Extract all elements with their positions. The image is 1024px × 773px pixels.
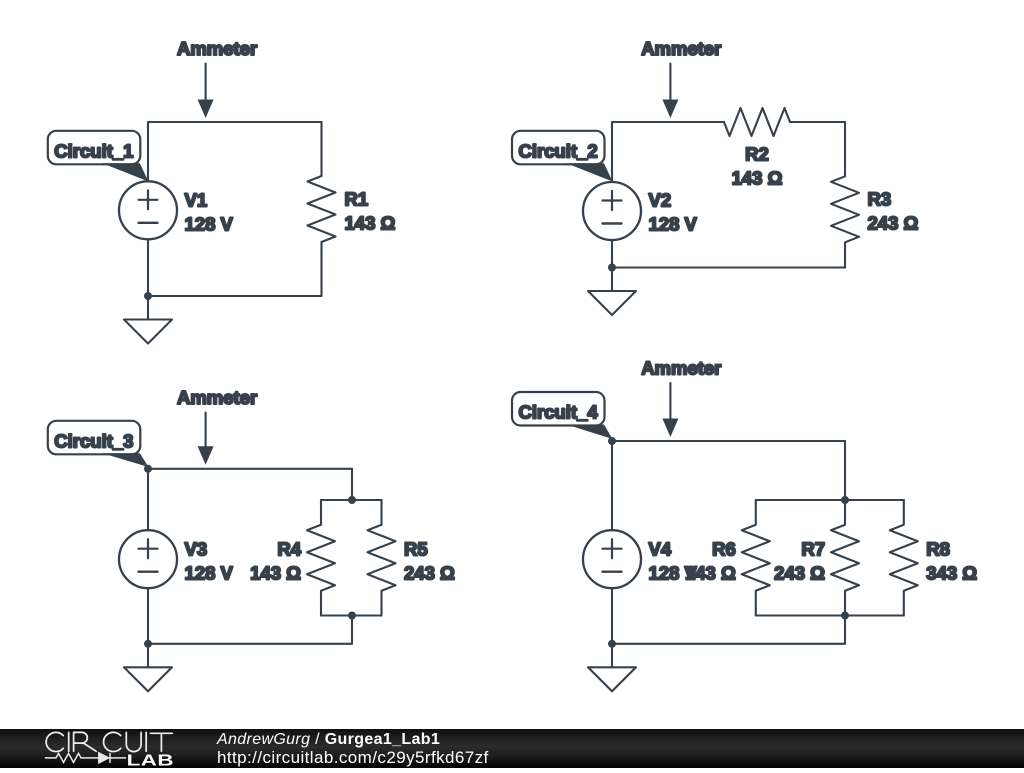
wire bottom-left from V2 to ground node (Circuit 2) (611, 240, 613, 268)
svg-text:R1: R1 (345, 189, 369, 210)
svg-text:243 Ω: 243 Ω (868, 213, 919, 234)
svg-text:R3: R3 (868, 189, 892, 210)
node junction dot parallel top (Circuit 3) (348, 496, 356, 504)
svg-text:Ammeter: Ammeter (177, 38, 257, 59)
wire top rail Circuit 3 (148, 469, 352, 530)
resistor R3 (831, 122, 859, 268)
resistor R7 (831, 500, 859, 616)
callout Circuit_4 (512, 392, 605, 426)
svg-text:Circuit_3: Circuit_3 (54, 430, 133, 451)
logo diode (99, 753, 126, 763)
wire bottom-left from V3 to ground node (Circuit 3) (147, 588, 149, 644)
wire right drop to parallel network (Circuit 4) (844, 441, 846, 500)
node junction dot bottom-left (Circuit 4) (608, 640, 616, 648)
svg-text:R7: R7 (801, 539, 825, 560)
voltage source V2 (583, 182, 641, 240)
svg-text:R4: R4 (277, 539, 301, 560)
logo letter C (46, 732, 63, 751)
svg-text:R6: R6 (712, 539, 736, 560)
svg-text:243 Ω: 243 Ω (774, 563, 825, 584)
node junction dot bottom-left (Circuit 1) (144, 292, 152, 300)
node junction dot top-left (Circuit 4) (608, 437, 616, 445)
wire right drop to parallel pair (Circuit 3) (351, 469, 353, 500)
wire bottom-left from V1 to ground node (Circuit 1) (147, 239, 149, 296)
svg-text:Circuit_2: Circuit_2 (519, 140, 598, 161)
wire top-left rail Circuit 2 (612, 122, 723, 182)
svg-text:Ammeter: Ammeter (641, 38, 721, 59)
resistor R6 (742, 500, 770, 616)
voltage source V4 (583, 530, 641, 588)
logo letter U (126, 732, 141, 751)
svg-text:R2: R2 (745, 144, 769, 165)
svg-text:128 V: 128 V (649, 563, 698, 584)
svg-text:143 Ω: 143 Ω (250, 563, 301, 584)
logo letter C (104, 732, 121, 751)
wire top rail Circuit 4 (612, 441, 845, 530)
resistor R8 (890, 500, 918, 616)
node junction dot bottom-left (Circuit 3) (144, 640, 152, 648)
wire bottom rail Circuit 1 (148, 295, 322, 297)
wire parallel top rail (Circuit 3) (321, 499, 382, 501)
svg-text:R8: R8 (926, 539, 950, 560)
svg-text:128 V: 128 V (185, 214, 234, 235)
wire parallel bottom rail (Circuit 3) (321, 614, 382, 616)
svg-text:243 Ω: 243 Ω (404, 563, 455, 584)
ground symbol (Circuit 3) (147, 644, 149, 668)
ammeter probe arrow (Circuit 1) (205, 64, 207, 102)
svg-text:R5: R5 (404, 539, 428, 560)
ammeter probe arrow (Circuit 2) (669, 64, 671, 102)
ammeter probe arrow (Circuit 3) (205, 413, 207, 449)
voltage source V1 (119, 181, 177, 239)
node junction dot parallel bottom (Circuit 3) (348, 612, 356, 620)
node junction dot bottom-left (Circuit 2) (608, 264, 616, 272)
svg-text:V1: V1 (185, 190, 208, 211)
ground symbol (Circuit 2) (611, 268, 613, 292)
svg-text:LAB: LAB (127, 752, 174, 768)
callout Circuit_3 (48, 421, 141, 455)
node junction dot parallel bottom (Circuit 4) (841, 612, 849, 620)
svg-text:143 Ω: 143 Ω (345, 213, 396, 234)
callout Circuit_1 (48, 131, 141, 165)
wire bottom drop from parallel pair (Circuit 3) (351, 616, 353, 644)
wire bottom rail Circuit 4 (612, 643, 845, 645)
voltage source V3 (119, 530, 177, 588)
wire parallel bottom rail (Circuit 4) (756, 614, 904, 616)
logo letter I (68, 732, 70, 751)
logo letter I (145, 732, 147, 751)
svg-text:Circuit_4: Circuit_4 (519, 402, 599, 423)
resistor R2 (724, 108, 790, 136)
wire bottom drop from parallel network (Circuit 4) (844, 616, 846, 644)
svg-text:143 Ω: 143 Ω (732, 168, 783, 189)
ground symbol (Circuit 4) (611, 644, 613, 668)
svg-text:Circuit_1: Circuit_1 (54, 140, 133, 161)
svg-text:128 V: 128 V (649, 214, 698, 235)
svg-text:V4: V4 (649, 539, 672, 560)
svg-text:V3: V3 (185, 539, 208, 560)
wire top rail Circuit 1 (148, 122, 322, 181)
resistor R1 (308, 122, 336, 296)
svg-text:Ammeter: Ammeter (641, 358, 721, 379)
node junction dot top-left (Circuit 3) (144, 465, 152, 473)
svg-text:V2: V2 (649, 190, 672, 211)
callout Circuit_2 (512, 131, 605, 165)
node junction dot parallel top (Circuit 4) (841, 496, 849, 504)
wire bottom-left from V4 to ground node (Circuit 4) (611, 588, 613, 644)
wire top-right rail Circuit 2 (790, 121, 845, 123)
svg-text:343 Ω: 343 Ω (926, 563, 977, 584)
logo resistor squiggle (45, 753, 99, 762)
resistor R5 (368, 500, 396, 616)
ground symbol (Circuit 1) (147, 296, 149, 320)
wire parallel top rail (Circuit 4) (756, 499, 904, 501)
wire bottom rail Circuit 2 (612, 266, 845, 268)
logo letter R (74, 732, 97, 751)
wire bottom rail Circuit 3 (148, 643, 352, 645)
ammeter probe arrow (Circuit 4) (669, 383, 671, 421)
svg-text:AndrewGurg / Gurgea1_Lab1: AndrewGurg / Gurgea1_Lab1 (216, 731, 440, 748)
resistor R4 (307, 500, 335, 616)
svg-text:http://circuitlab.com/c29y5rfk: http://circuitlab.com/c29y5rfkd67zf (217, 748, 489, 767)
svg-text:128 V: 128 V (185, 563, 234, 584)
svg-text:Ammeter: Ammeter (177, 387, 257, 408)
logo letter T (150, 733, 172, 751)
